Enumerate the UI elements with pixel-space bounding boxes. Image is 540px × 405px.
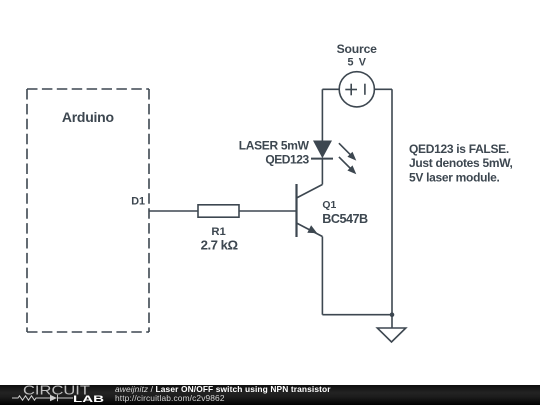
node junction <box>390 312 395 317</box>
footer bar <box>0 385 540 405</box>
voltage source V1 <box>337 42 378 107</box>
svg-text:BC547B: BC547B <box>322 212 368 226</box>
svg-text:R1: R1 <box>211 226 225 238</box>
wire right vertical <box>391 89 393 314</box>
wire bottom horizontal <box>322 314 392 316</box>
svg-text:Arduino: Arduino <box>62 109 114 125</box>
wire D1 to resistor R1 <box>149 210 198 212</box>
wire emitter down <box>321 237 323 315</box>
svg-text:LAB: LAB <box>73 394 104 404</box>
wire laser anode up <box>321 89 323 140</box>
svg-text:D1: D1 <box>131 196 145 208</box>
svg-text:Q1: Q1 <box>322 200 336 211</box>
svg-text:QED123 is FALSE.: QED123 is FALSE. <box>409 142 509 156</box>
svg-text:Source: Source <box>337 42 378 56</box>
wire source to top-right corner <box>374 88 392 90</box>
svg-text:5V laser module.: 5V laser module. <box>409 170 500 184</box>
wire collector to laser diode cathode <box>321 159 323 185</box>
svg-text:QED123: QED123 <box>265 153 309 167</box>
node D1 <box>131 196 145 208</box>
wire top-left corner to source <box>322 88 339 90</box>
Arduino module box <box>27 89 149 332</box>
svg-text:Just denotes 5mW,: Just denotes 5mW, <box>409 156 513 170</box>
wire R1 to transistor base <box>239 210 296 212</box>
CircuitLab logo <box>0 385 112 405</box>
annotation note <box>409 142 513 184</box>
transistor Q1 <box>297 184 369 237</box>
resistor R1 <box>198 205 239 253</box>
ground <box>377 315 406 342</box>
svg-text:LASER 5mW: LASER 5mW <box>239 138 310 152</box>
svg-text:5 V: 5 V <box>348 57 368 69</box>
laser diode QED123 <box>239 138 357 174</box>
svg-text:2.7 kΩ: 2.7 kΩ <box>201 238 239 253</box>
